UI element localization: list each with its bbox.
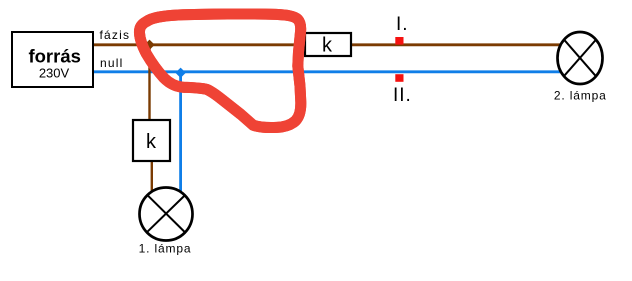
lamp 1 (circle with cross): [140, 188, 193, 241]
svg-text:null: null: [100, 56, 123, 70]
wire blue vertical from junction to lamp 1: [179, 72, 182, 196]
svg-text:2. lámpa: 2. lámpa: [554, 89, 607, 103]
wire null horizontal (blue, source to lamp 2): [93, 70, 570, 73]
svg-text:k: k: [146, 131, 157, 153]
red freehand annotation loop around junction: [139, 14, 300, 128]
svg-text:I.: I.: [396, 14, 409, 35]
svg-text:forrás: forrás: [28, 46, 80, 67]
wire brown vertical from junction to switch k: [148, 45, 150, 122]
svg-text:fázis: fázis: [100, 28, 131, 42]
switch K2 (series with lamp 2): [305, 33, 351, 57]
red measurement marker I (square on fázis wire): [395, 37, 403, 45]
wire fázis horizontal (brown, source to lamp 2): [93, 43, 562, 46]
lamp 2 (circle with cross): [558, 32, 603, 84]
svg-text:II.: II.: [393, 85, 412, 106]
node junction on null wire (blue diamond): [175, 68, 185, 78]
svg-text:1. lámpa: 1. lámpa: [139, 241, 192, 255]
voltage source forrás 230V: [12, 32, 93, 87]
svg-text:k: k: [322, 35, 333, 57]
svg-text:230V: 230V: [39, 65, 70, 80]
node junction on fázis wire (brown diamond): [144, 40, 154, 50]
red measurement marker II (square on null wire): [395, 74, 403, 82]
wire brown from switch k down to lamp 1: [151, 159, 153, 192]
switch K1 (series with lamp 1): [133, 120, 170, 161]
